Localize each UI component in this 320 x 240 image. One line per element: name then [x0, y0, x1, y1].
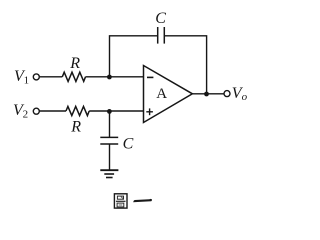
capacitor C1 (feedback C) — [158, 27, 165, 44]
svg-text:2: 2 — [23, 109, 29, 121]
wire V2 terminal to resistor R2 — [40, 110, 66, 112]
wire op-amp output — [192, 93, 224, 95]
node V1 input terminal — [33, 74, 39, 80]
caption figure 1 (一) — [133, 199, 152, 202]
svg-text:R: R — [70, 118, 81, 135]
caption figure 1 (圖) — [114, 194, 127, 208]
node junction dot output/feedback — [204, 92, 209, 97]
wire junction down to capacitor C2 — [109, 111, 111, 137]
wire R1 to op-amp inverting input — [86, 76, 144, 78]
wire R2 to op-amp non-inverting input — [89, 110, 143, 112]
ground — [100, 170, 118, 177]
wire feedback top right horizontal and right vertical — [165, 36, 207, 94]
op-amp plus sign — [146, 108, 153, 115]
capacitor C2 (bottom C) — [100, 137, 118, 144]
node Vo output terminal — [224, 91, 230, 97]
svg-text:R: R — [69, 55, 80, 72]
svg-text:C: C — [155, 10, 166, 27]
op-amp U1 triangle — [144, 66, 193, 123]
wire V1 terminal to resistor R1 — [40, 76, 63, 78]
wire capacitor C2 to ground — [109, 144, 111, 170]
svg-text:1: 1 — [24, 75, 30, 87]
resistor R2 (bottom R) — [66, 106, 89, 115]
resistor R1 (top R) — [62, 72, 85, 81]
node junction dot V1/feedback — [107, 75, 112, 80]
svg-text:A: A — [156, 86, 167, 102]
svg-text:o: o — [242, 91, 248, 103]
op-amp minus sign — [147, 76, 153, 78]
svg-text:C: C — [123, 135, 134, 152]
node V2 input terminal — [33, 108, 39, 114]
node junction dot V2/capacitor branch — [107, 109, 112, 114]
wire feedback left vertical and top left horizontal — [110, 36, 158, 77]
